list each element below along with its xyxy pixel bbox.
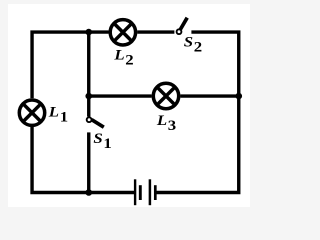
switch S2	[177, 18, 188, 34]
svg-text:L3: L3	[156, 113, 176, 134]
battery plate long	[149, 179, 152, 205]
lamp L3	[153, 83, 178, 108]
wire: middle vertical from top node down to S1	[87, 32, 90, 117]
lamp L2	[110, 20, 135, 45]
battery plate short	[139, 185, 142, 200]
wire: middle vertical from S1 down to bottom node	[87, 132, 90, 192]
node: bottom junction	[85, 189, 92, 196]
node: middle junction	[85, 93, 92, 100]
wire: bottom-left from battery, left side up to L1	[32, 127, 134, 193]
wire: top between L2 and S2	[137, 30, 174, 33]
switch S1	[87, 117, 104, 127]
wire: top-right corner, right side, bottom-right to battery	[157, 32, 239, 192]
battery plate short	[154, 185, 157, 200]
lamp L1	[19, 100, 44, 125]
battery B1	[135, 179, 155, 205]
wire: left side and top-left to lamp L2	[32, 32, 109, 98]
node: right junction	[235, 93, 242, 100]
wire: middle branch from node to lamp L3	[89, 94, 152, 97]
battery plate long	[134, 179, 136, 205]
svg-text:L2: L2	[113, 47, 133, 68]
wire: middle branch from L3 to right node	[180, 94, 238, 97]
svg-text:L1: L1	[48, 104, 68, 125]
node: top junction	[85, 29, 92, 36]
svg-text:S1: S1	[93, 131, 111, 152]
svg-text:S2: S2	[184, 34, 202, 55]
